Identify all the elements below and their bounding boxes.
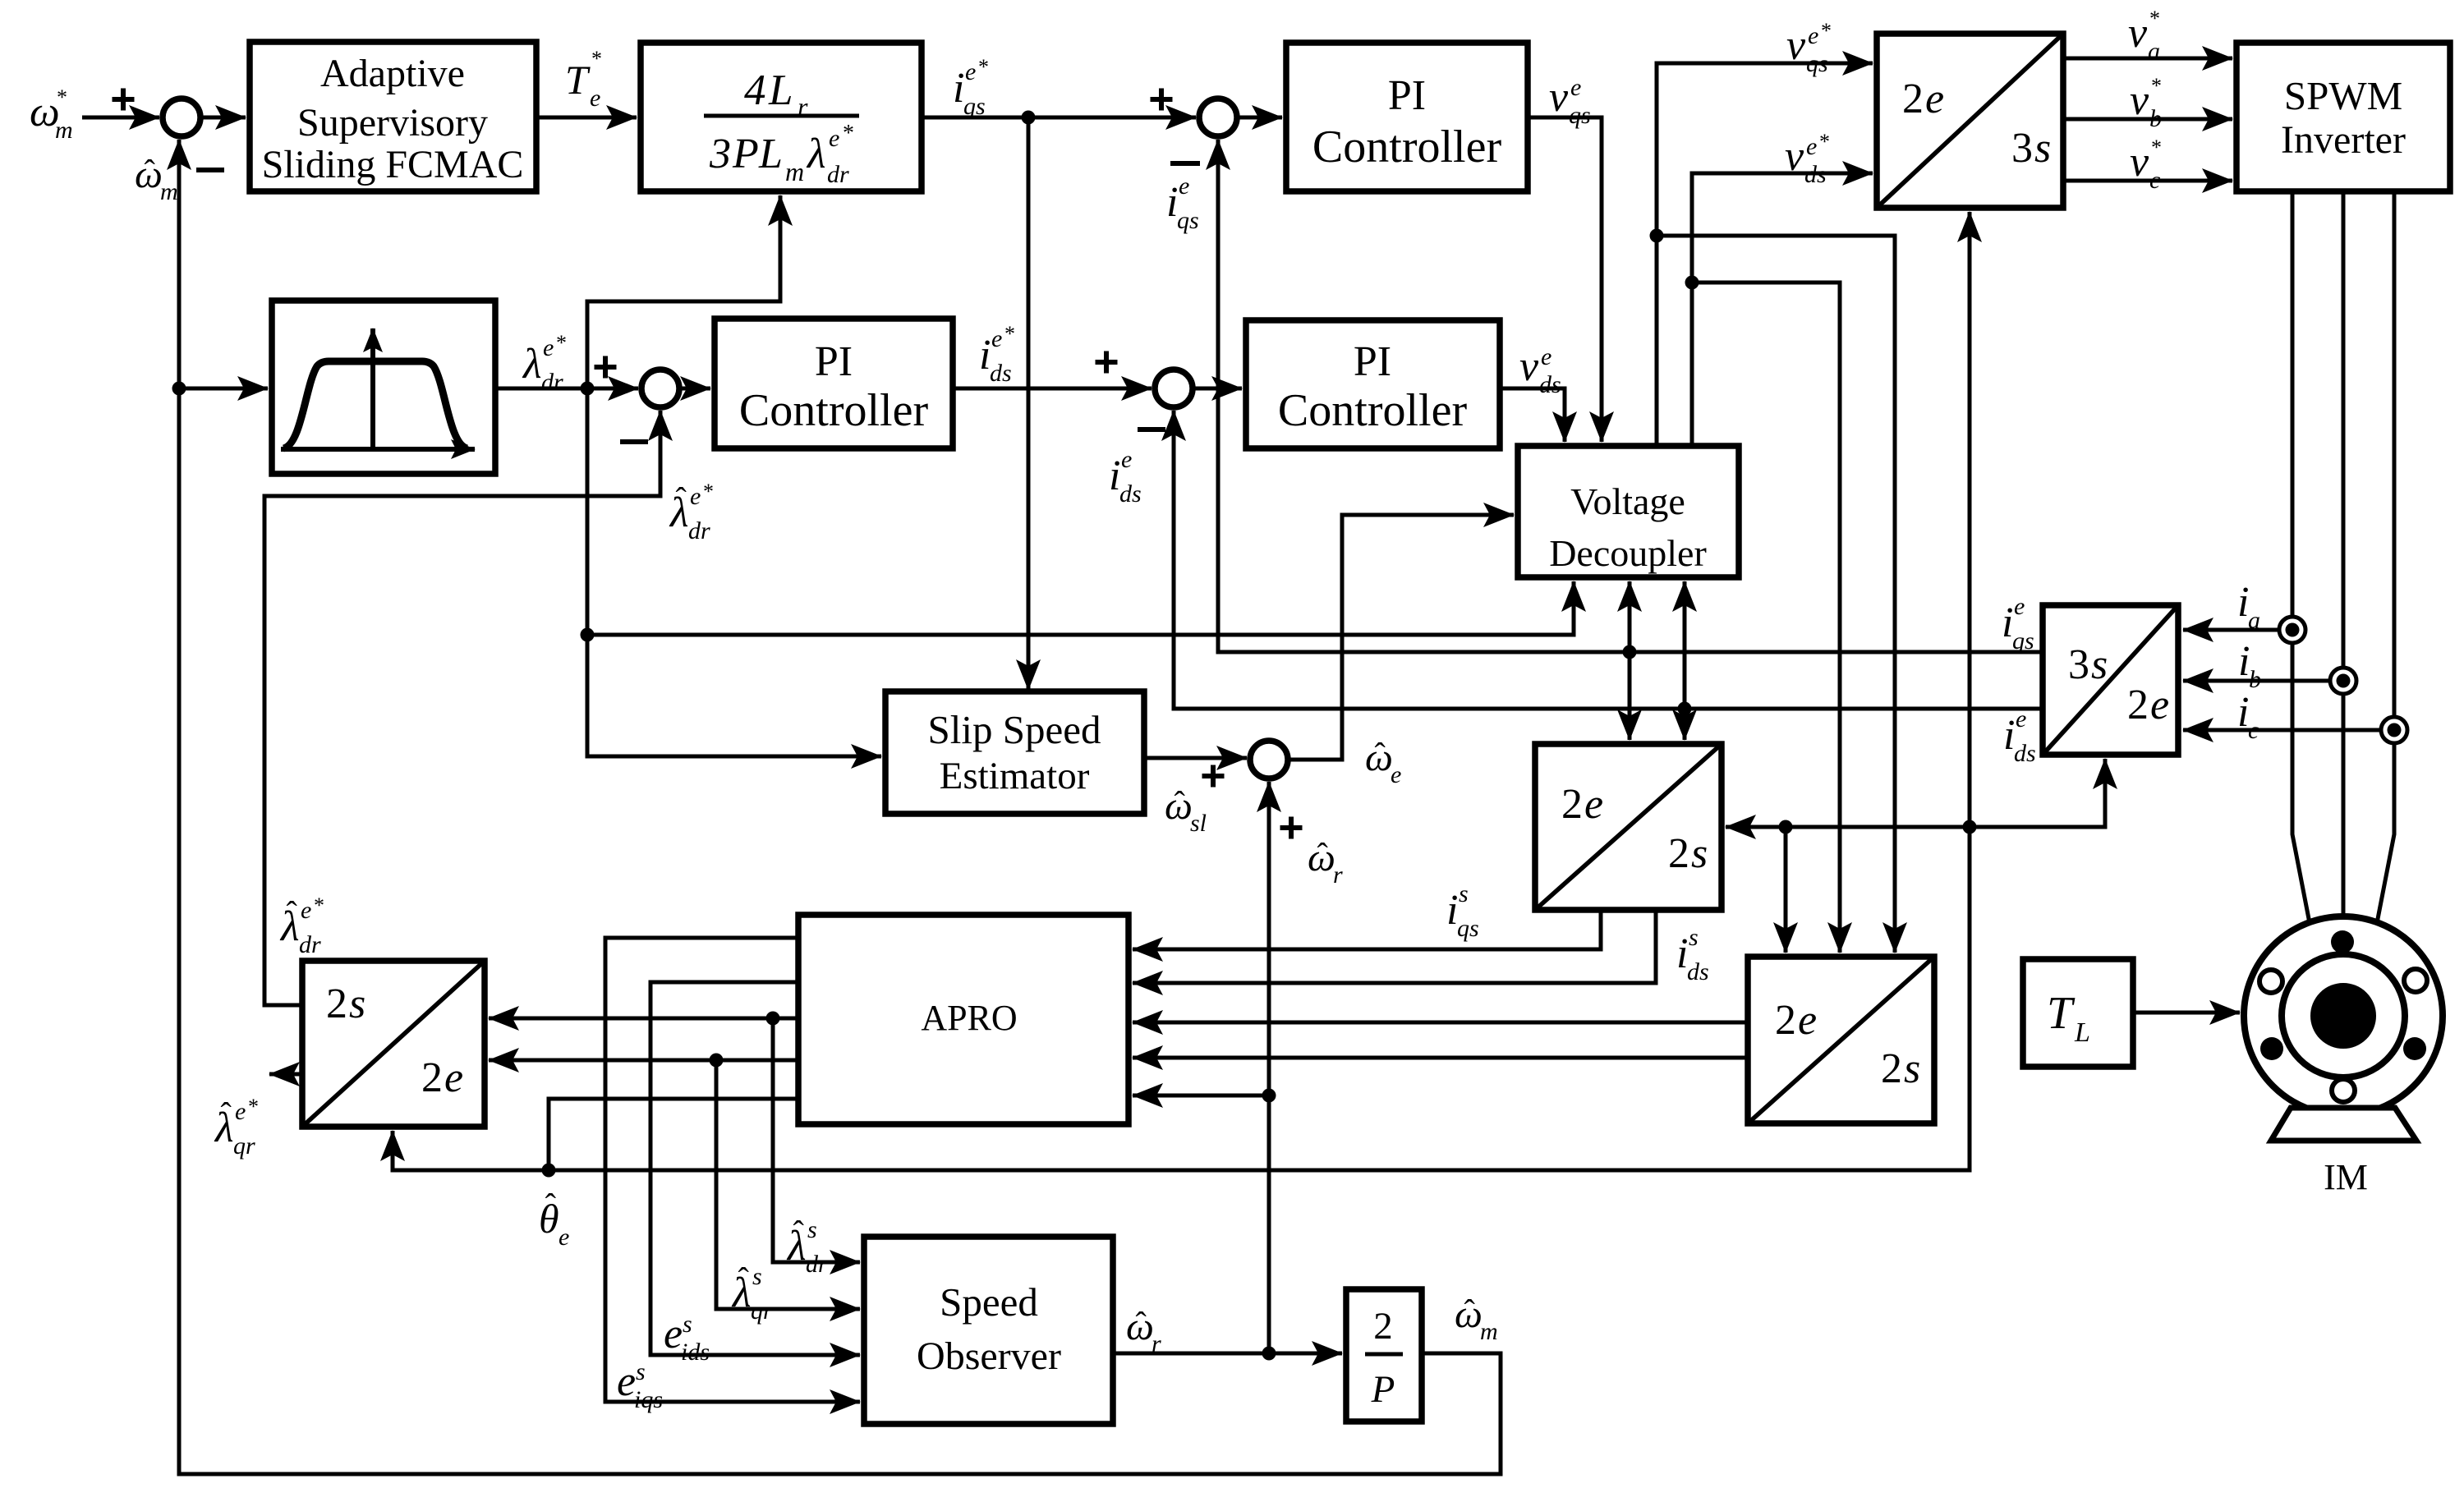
node: lambda_dr* branch junction to decoupler [581, 628, 595, 642]
svg-text:*: * [314, 893, 324, 917]
svg-text:ˆ: ˆ [793, 1214, 805, 1251]
svg-text:*: * [1004, 322, 1015, 346]
svg-text:*: * [248, 1095, 259, 1118]
label ic [2237, 689, 2259, 744]
block K: Slip Speed Estimator [885, 691, 1144, 814]
svg-text:e: e [1121, 446, 1132, 473]
svg-text:e: e [235, 1098, 246, 1125]
svg-text:s: s [2034, 125, 2051, 172]
svg-text:qs: qs [963, 93, 986, 120]
wire: TL to motor [2133, 1011, 2240, 1015]
svg-text:Controller: Controller [1312, 122, 1502, 172]
wire: theta_e into L right edge [1726, 825, 1970, 829]
svg-text:3: 3 [2068, 641, 2089, 688]
svg-text:Sliding FCMAC: Sliding FCMAC [262, 143, 524, 186]
current sensor on phase a [2279, 617, 2305, 643]
wire: O output lambda_qr_e* arrow [269, 1072, 302, 1077]
wire: ids feedback from J to S4 [1174, 411, 2043, 709]
svg-text:e: e [1584, 781, 1603, 828]
svg-text:m: m [55, 117, 73, 144]
svg-text:PI: PI [1388, 72, 1426, 119]
wire: decoupler output vqs* riser to H [1657, 63, 1873, 446]
svg-text:e: e [829, 125, 839, 152]
svg-text:*: * [978, 55, 989, 79]
label e_iqs_s [617, 1358, 663, 1413]
svg-text:e: e [664, 1311, 683, 1357]
svg-text:v: v [2130, 77, 2149, 124]
svg-text:dr: dr [827, 161, 849, 188]
svg-text:ˆ: ˆ [287, 894, 298, 931]
label minus at S1 [196, 168, 224, 172]
wire: lambda_dr_s down to Speed Observer [773, 1018, 860, 1262]
svg-text:ds: ds [1119, 480, 1142, 507]
svg-text:e: e [2150, 682, 2169, 728]
current sensor on phase b [2330, 668, 2356, 694]
label e_ids_s [664, 1311, 710, 1366]
svg-text:m: m [785, 157, 804, 186]
node: theta_e junction [542, 1164, 556, 1178]
block H: 2e-to-3s transform [1877, 34, 2063, 208]
wire: speed command omega_m* into summing S1 [82, 116, 159, 120]
wire: iqs feedback from J to S3 [1218, 140, 2043, 652]
svg-text:Inverter: Inverter [2281, 118, 2406, 162]
wire: current sense ib to J [2183, 679, 2343, 683]
wire: ids down into L top [1683, 709, 1687, 740]
svg-text:sl: sl [1190, 810, 1207, 837]
svg-text:s: s [349, 981, 365, 1027]
svg-text:APRO: APRO [921, 998, 1017, 1038]
wire: APRO flux output lambda_qr_s to O [489, 1059, 798, 1063]
label iqs_e from J [2002, 593, 2034, 654]
svg-text:λ: λ [522, 341, 542, 388]
label omega_e_hat [1365, 736, 1401, 788]
svg-text:dr: dr [806, 1251, 828, 1278]
text block O 2s [326, 981, 365, 1027]
wire: iqs* branch down into Slip Speed Estimator [1027, 117, 1031, 690]
wire: bottom feedback loop omega_m to S1 [179, 140, 1501, 1474]
svg-text:L: L [758, 131, 783, 177]
svg-text:2: 2 [1373, 1305, 1393, 1348]
svg-text:c: c [2248, 717, 2259, 744]
label plus at S5 bottom [1280, 817, 1303, 839]
label plus at S2 [595, 356, 617, 379]
label vb* [2130, 74, 2162, 132]
svg-text:L: L [768, 67, 793, 114]
label theta_e_hat [539, 1187, 569, 1251]
svg-text:e: e [1798, 997, 1817, 1044]
svg-text:*: * [2151, 135, 2162, 159]
svg-text:ds: ds [1804, 161, 1827, 188]
svg-text:v: v [1519, 343, 1539, 390]
block O: 2s-to-2e transform (rotor flux) [302, 961, 485, 1127]
wire: current sense ia to J [2183, 628, 2292, 632]
block F: PI Controller (d-axis current) [1246, 320, 1500, 448]
summing junction S1 (speed error) [163, 99, 200, 136]
svg-text:e: e [1808, 22, 1818, 49]
svg-text:Adaptive: Adaptive [320, 52, 465, 95]
label ids_e from J [2003, 705, 2036, 767]
text block O 2e [421, 1054, 463, 1101]
svg-text:r: r [1333, 861, 1343, 889]
svg-text:ˆ: ˆ [144, 153, 155, 190]
svg-text:Controller: Controller [739, 385, 929, 436]
svg-text:*: * [1821, 19, 1832, 43]
wire: L output ids_s to APRO [1133, 910, 1656, 983]
wire: B output lambda_dr* to summing S2 [495, 387, 638, 391]
wire: theta_e left into O bottom [393, 1131, 549, 1170]
svg-text:2: 2 [1561, 781, 1583, 828]
wire: lambda_qr_s down to Speed Observer [716, 1060, 860, 1309]
wire: H to SPWM phase b [2063, 117, 2232, 122]
svg-text:qs: qs [1569, 102, 1591, 129]
label plus at S3 [1151, 89, 1173, 111]
text block Q 2/P [1365, 1305, 1403, 1411]
wire: inverter phase b down to motor [2342, 191, 2346, 920]
label omega_r_hat from Speed Observer [1126, 1305, 1161, 1357]
svg-text:e: e [617, 1358, 636, 1405]
wire: lambda_dr* branch to Voltage Decoupler bottom [587, 581, 1574, 635]
label minus at S2 [620, 439, 648, 444]
svg-text:ˆ: ˆ [738, 1261, 750, 1297]
svg-text:PI: PI [1354, 338, 1391, 385]
text Speed Observer [917, 1279, 1061, 1378]
block TL: load torque [2023, 959, 2133, 1067]
wire: branch into flux profile block B [179, 387, 268, 391]
text block G [1549, 480, 1707, 574]
svg-text:a: a [2148, 38, 2160, 65]
svg-text:s: s [1689, 924, 1699, 951]
svg-text:*: * [556, 331, 567, 355]
block G: Voltage Decoupler [1518, 446, 1739, 577]
wire: S4 to PI controller F [1192, 387, 1242, 391]
svg-text:Supervisory: Supervisory [297, 101, 488, 145]
block Q: 2/P gain [1346, 1289, 1422, 1421]
svg-text:3: 3 [2011, 125, 2033, 172]
svg-text:e: e [991, 325, 1002, 352]
label lambda_dr_e* flux cmd [522, 331, 567, 396]
block B flux curve axes [281, 328, 475, 449]
wire: A to C torque command Te* [536, 116, 637, 120]
svg-text:v: v [1785, 133, 1804, 180]
summing junction S2 (flux error) [641, 370, 679, 407]
label minus at S3 [1170, 161, 1200, 166]
block H diagonal [1877, 34, 2063, 208]
node: ids feedback junction at decoupler riser [1678, 702, 1692, 716]
block SPWM Inverter [2236, 43, 2450, 191]
wire: APRO error e_iqs to Speed Observer [605, 938, 860, 1402]
svg-text:s: s [807, 1216, 817, 1243]
svg-text:Slip Speed: Slip Speed [928, 707, 1101, 752]
svg-text:ˆ: ˆ [1374, 736, 1386, 773]
label ia [2237, 579, 2260, 634]
svg-text:qr: qr [233, 1132, 255, 1160]
block E: PI Controller (flux) [715, 319, 953, 448]
wire: APRO flux output lambda_dr_s to O [489, 1017, 798, 1021]
svg-text:s: s [636, 1358, 646, 1385]
svg-text:ds: ds [2014, 740, 2036, 767]
wire: C output iqs* to summing S3 [922, 116, 1196, 120]
svg-text:ˆ: ˆ [1135, 1305, 1147, 1342]
svg-text:Estimator: Estimator [940, 755, 1090, 797]
text block H 3s [2011, 125, 2051, 172]
svg-text:4: 4 [744, 67, 766, 114]
svg-text:v: v [2128, 10, 2148, 57]
svg-text:e: e [965, 58, 976, 85]
svg-text:e: e [1806, 133, 1817, 160]
svg-text:IM: IM [2324, 1157, 2368, 1197]
label plus at S4 [1096, 351, 1118, 374]
label ids_e* [979, 322, 1015, 387]
svg-text:e: e [2016, 705, 2026, 733]
label vqs_e* to H [1786, 19, 1832, 77]
svg-text:PI: PI [815, 338, 853, 385]
summing junction S4 (d current error) [1155, 370, 1193, 407]
label lambda_dr_s_hat [786, 1214, 828, 1278]
svg-text:Observer: Observer [917, 1334, 1061, 1378]
text block E [739, 338, 929, 436]
svg-text:2: 2 [2127, 682, 2149, 728]
svg-text:P: P [732, 131, 759, 177]
label omega_m* input [30, 85, 73, 144]
text block M 2s [1881, 1045, 1920, 1092]
text block H 2e [1902, 76, 1944, 122]
label plus at S1 [113, 89, 135, 111]
svg-text:2: 2 [1775, 997, 1796, 1044]
wire: H to SPWM phase c [2063, 179, 2232, 183]
svg-text:s: s [1691, 830, 1708, 877]
wire: theta_e into J bottom [1970, 759, 2105, 827]
svg-text:s: s [1459, 880, 1469, 907]
svg-text:e: e [1570, 74, 1581, 101]
block B flux curve [283, 361, 467, 448]
node: lambda_qr_s junction [710, 1054, 724, 1068]
node: omega_r junction to APRO [1262, 1089, 1276, 1103]
wire: APRO error e_ids to Speed Observer [650, 982, 860, 1355]
wire: iqs up into Voltage Decoupler [1628, 581, 1632, 652]
label vds_e [1519, 343, 1561, 398]
svg-text:ds: ds [1687, 958, 1709, 985]
text block J 2e [2127, 682, 2169, 728]
label Te* [565, 47, 602, 112]
svg-text:*: * [57, 85, 67, 109]
text block K [928, 707, 1101, 797]
svg-text:*: * [591, 47, 602, 71]
svg-text:*: * [2149, 7, 2160, 30]
label ib [2238, 638, 2261, 693]
svg-text:*: * [2151, 74, 2162, 98]
node: iqs* branch junction [1022, 111, 1036, 125]
svg-text:b: b [2249, 666, 2261, 693]
svg-text:qs: qs [1457, 915, 1479, 942]
label minus at S4 [1138, 427, 1165, 432]
wire: inverter phase a down to motor [2292, 191, 2310, 923]
svg-text:ˆ: ˆ [221, 1095, 232, 1132]
svg-text:Decoupler: Decoupler [1549, 532, 1707, 574]
text block A [262, 52, 524, 186]
svg-text:ˆ: ˆ [1317, 836, 1328, 873]
svg-text:SPWM: SPWM [2284, 73, 2402, 118]
wire: omega_r riser up into S5 [1267, 782, 1271, 1353]
wire: ids up into Voltage Decoupler [1683, 581, 1687, 709]
wire: vqs* branch down to M top [1657, 236, 1895, 953]
svg-text:Voltage: Voltage [1570, 480, 1685, 522]
block M: 2e-to-2s transform (voltages) [1748, 957, 1934, 1123]
wire: lambda_dr* branch down to Slip Speed Estimator [587, 388, 881, 756]
svg-text:qs: qs [1177, 207, 1199, 234]
block C: torque-to-current gain 4Lr/(3PLm*lambda_dr) [641, 43, 922, 191]
svg-text:ˆ: ˆ [676, 480, 687, 517]
svg-text:e: e [2014, 593, 2025, 620]
wire: S3 to PI controller D [1236, 116, 1282, 120]
label va* [2128, 7, 2160, 65]
svg-text:e: e [1925, 76, 1944, 122]
wire: theta_e down into M top [1784, 827, 1788, 953]
wire: F output vds to Voltage Decoupler top [1500, 388, 1565, 442]
node: theta_e junction for M [1779, 820, 1793, 834]
node: theta_e junction for L/J [1963, 820, 1977, 834]
svg-text:ˆ: ˆ [1174, 784, 1185, 821]
node: omega_r junction at speed observer output [1262, 1347, 1276, 1361]
wire: decoupler output vds* riser to H [1692, 173, 1873, 446]
block J diagonal [2043, 605, 2178, 755]
wire: D output vqs to Voltage Decoupler top [1528, 117, 1602, 442]
wire: Speed Observer output omega_r to 2/P [1113, 1352, 1342, 1356]
svg-text:dr: dr [299, 931, 321, 958]
svg-text:e: e [1179, 172, 1189, 200]
svg-text:T: T [565, 57, 591, 103]
wire: current sense ic to J [2183, 728, 2394, 733]
svg-text:ds: ds [990, 360, 1012, 387]
svg-text:2: 2 [326, 981, 347, 1027]
svg-text:m: m [160, 178, 178, 205]
svg-text:qs: qs [1806, 50, 1828, 77]
svg-text:s: s [683, 1311, 692, 1338]
svg-text:e: e [1541, 343, 1551, 370]
wire: inverter phase c down to motor [2377, 191, 2394, 923]
svg-text:e: e [559, 1224, 569, 1251]
svg-text:e: e [543, 334, 554, 361]
svg-text:e: e [690, 483, 701, 510]
label plus at S5 left [1202, 765, 1225, 788]
text block D [1312, 72, 1502, 172]
svg-text:m: m [1480, 1318, 1498, 1345]
svg-text:*: * [703, 480, 714, 503]
svg-text:ˆ: ˆ [1464, 1293, 1475, 1330]
node: omega_m feedback branch to flux profile [172, 382, 186, 396]
wire: iqs down into L top [1628, 652, 1632, 740]
svg-text:ˆ: ˆ [545, 1187, 557, 1224]
wire: H to SPWM phase a [2063, 57, 2232, 61]
text block J 3s [2068, 641, 2108, 688]
svg-text:dr: dr [541, 369, 563, 396]
wire: L output iqs_s to APRO [1133, 910, 1601, 949]
svg-text:e: e [590, 85, 600, 112]
text block F [1278, 338, 1468, 436]
wire: vds* branch down to M top [1692, 282, 1840, 953]
wire: M output vds_s to APRO [1133, 1056, 1748, 1060]
summing junction S3 (q current error) [1199, 99, 1237, 136]
svg-text:Speed: Speed [940, 1279, 1038, 1325]
node: lambda_dr_s junction [766, 1012, 780, 1026]
svg-text:r: r [1152, 1330, 1161, 1357]
node: iqs feedback junction at decoupler riser [1623, 645, 1637, 659]
node: lambda_dr* junction [581, 382, 595, 396]
label vqs_e [1549, 74, 1591, 129]
svg-text:v: v [1549, 74, 1569, 121]
svg-text:λ: λ [806, 131, 826, 177]
label lambda_qr_s_hat [731, 1261, 773, 1325]
svg-text:s: s [2091, 641, 2108, 688]
label vc* [2130, 135, 2162, 194]
label iqs_e feedback [1166, 172, 1199, 234]
label omega_m_hat at S1 [135, 153, 178, 205]
svg-text:v: v [1786, 22, 1806, 69]
block J: 3s-to-2e transform [2043, 605, 2178, 755]
svg-text:s: s [752, 1263, 762, 1290]
label lambda_qr_e*_hat from O [214, 1095, 259, 1160]
svg-text:v: v [2130, 139, 2149, 186]
block M diagonal [1748, 957, 1934, 1123]
wire: E output ids* to summing S4 [953, 387, 1152, 391]
label ids_s from L [1676, 924, 1709, 985]
label lambda_dr_e*_hat above O [279, 893, 324, 958]
svg-text:P: P [1371, 1368, 1395, 1411]
wire: M output vqs_s to APRO [1133, 1021, 1748, 1025]
node: vds* branch junction [1685, 276, 1699, 290]
svg-text:qr: qr [751, 1297, 773, 1325]
svg-text:dr: dr [688, 517, 710, 544]
block L: 2e-to-2s transform (currents) [1535, 744, 1722, 910]
label omega_m_hat from 2/P [1455, 1293, 1498, 1345]
block P: Speed Observer [864, 1237, 1113, 1424]
svg-text:2: 2 [421, 1054, 443, 1101]
svg-text:*: * [843, 121, 854, 146]
svg-text:Controller: Controller [1278, 385, 1468, 436]
svg-text:b: b [2149, 105, 2162, 132]
block O diagonal [302, 961, 485, 1127]
svg-text:L: L [2074, 1017, 2090, 1048]
svg-text:c: c [2149, 167, 2160, 194]
svg-text:3: 3 [709, 131, 731, 177]
svg-text:a: a [2248, 607, 2260, 634]
svg-text:T: T [2047, 988, 2076, 1039]
label iqs_e* after C [953, 55, 989, 120]
text block M 2e [1775, 997, 1817, 1044]
svg-text:ids: ids [681, 1339, 710, 1366]
label vds_e* to H [1785, 130, 1830, 188]
svg-text:e: e [444, 1054, 463, 1101]
svg-text:e: e [1391, 761, 1401, 788]
wire: theta_e right and up into H bottom [549, 212, 1970, 1170]
svg-text:2: 2 [1902, 76, 1924, 122]
text block L 2s [1668, 830, 1708, 877]
svg-text:*: * [1819, 130, 1830, 154]
text block L 2e [1561, 781, 1603, 828]
wire: S2 to PI controller E [678, 387, 710, 391]
wire: K output slip speed to summing S5 [1144, 756, 1247, 760]
svg-text:e: e [301, 897, 311, 924]
summing junction S5 (omega_e = omega_sl + omega_r) [1250, 741, 1288, 778]
svg-text:2: 2 [1881, 1045, 1902, 1092]
block N: APRO observer [798, 915, 1129, 1124]
svg-text:iqs: iqs [634, 1386, 663, 1413]
wire: S1 to block A [200, 116, 246, 120]
text TL [2047, 988, 2090, 1048]
current sensor on phase c [2381, 717, 2407, 743]
wire: rotor flux estimate feedback from O to S2 [264, 411, 660, 1005]
label omega_sl_hat [1165, 784, 1207, 837]
wire: lambda_dr* branch up into C bottom [587, 195, 780, 388]
